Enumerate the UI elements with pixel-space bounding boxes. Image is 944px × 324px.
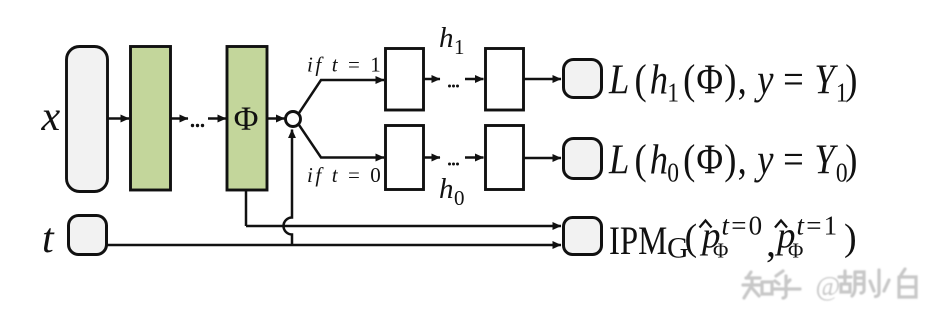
watermark char bai (899, 269, 916, 297)
h1 head layer box 2 (486, 49, 524, 111)
svg-text:t=0: t=0 (722, 211, 765, 241)
hidden layer 1 (green) (131, 47, 171, 191)
loss0 formula L(h0(Phi), y = Y0) (608, 136, 858, 188)
svg-text:Φ: Φ (788, 239, 803, 263)
watermark zhihu @huxiaobai (743, 269, 916, 301)
ellipsis dots h0 row (448, 163, 459, 166)
split node (circle) (286, 112, 301, 127)
svg-text:h: h (439, 173, 454, 205)
wire input to hidden1 (108, 117, 129, 120)
loss1 output box (gray rounded) (564, 60, 602, 98)
svg-text:Φ: Φ (234, 101, 259, 138)
svg-text:(: ( (685, 217, 698, 259)
svg-text:t: t (42, 216, 55, 262)
label if t = 1 (307, 53, 383, 77)
wire branch t=1 (299, 80, 385, 114)
svg-text:if t = 0: if t = 0 (307, 163, 383, 187)
svg-text:t=1: t=1 (797, 211, 840, 241)
svg-text:IPM: IPM (609, 218, 667, 263)
treatment t box (gray rounded) (69, 216, 107, 255)
svg-text:if t = 1: if t = 1 (307, 53, 383, 77)
wire h1 box1 to dots (424, 78, 440, 81)
Phi label (234, 101, 259, 138)
wire Phi down stub (245, 190, 248, 226)
wire t branch up to split node with hop (284, 130, 293, 246)
loss0 output box (gray rounded) (564, 139, 602, 179)
label h0 (439, 173, 465, 210)
wire h1 box2 to loss1 box (524, 78, 561, 81)
h0 head layer box 1 (386, 126, 424, 190)
wire t to IPM box (107, 244, 561, 247)
wire dots to Phi layer (208, 117, 226, 120)
svg-text:L(h1(Φ), y = Y1): L(h1(Φ), y = Y1) (608, 56, 858, 108)
wire Phi to IPM box (246, 225, 561, 228)
svg-text:): ) (844, 217, 857, 259)
wire Phi to split node (267, 117, 285, 120)
h0 head layer box 2 (486, 126, 524, 190)
svg-text:1: 1 (454, 35, 465, 59)
input layer box (gray rounded) (67, 47, 108, 192)
svg-text:0: 0 (454, 186, 465, 210)
ellipsis dots h1 row (448, 85, 459, 88)
label h1 (439, 22, 465, 59)
svg-text:h: h (439, 22, 454, 54)
watermark char hu (773, 271, 800, 298)
svg-text:L(h0(Φ), y = Y0): L(h0(Φ), y = Y0) (608, 136, 858, 188)
watermark char xiao (870, 270, 889, 297)
h1 head layer box 1 (386, 49, 424, 111)
loss1 formula L(h1(Phi), y = Y1) (608, 56, 858, 108)
svg-text:Φ: Φ (713, 239, 728, 263)
wire hidden1 to dots (171, 117, 188, 120)
IPM output box (gray rounded) (564, 218, 602, 255)
svg-text:@: @ (816, 271, 841, 301)
label if t = 0 (307, 163, 383, 187)
node t label (42, 216, 55, 262)
IPM word (609, 218, 667, 263)
ellipsis dots left (191, 124, 204, 127)
representation layer Phi (green) (227, 47, 267, 191)
node x label (41, 94, 61, 140)
wire dots to h0 box2 (465, 156, 484, 159)
IPM formula (609, 211, 857, 266)
wire dots to h1 box2 (465, 78, 484, 81)
svg-text:x: x (41, 94, 61, 140)
wire branch t=0 (299, 124, 385, 157)
wire h0 box1 to dots (424, 156, 440, 159)
watermark char zhi (743, 272, 772, 298)
watermark char hu2 (839, 271, 864, 296)
wire h0 box2 to loss0 box (524, 157, 561, 160)
